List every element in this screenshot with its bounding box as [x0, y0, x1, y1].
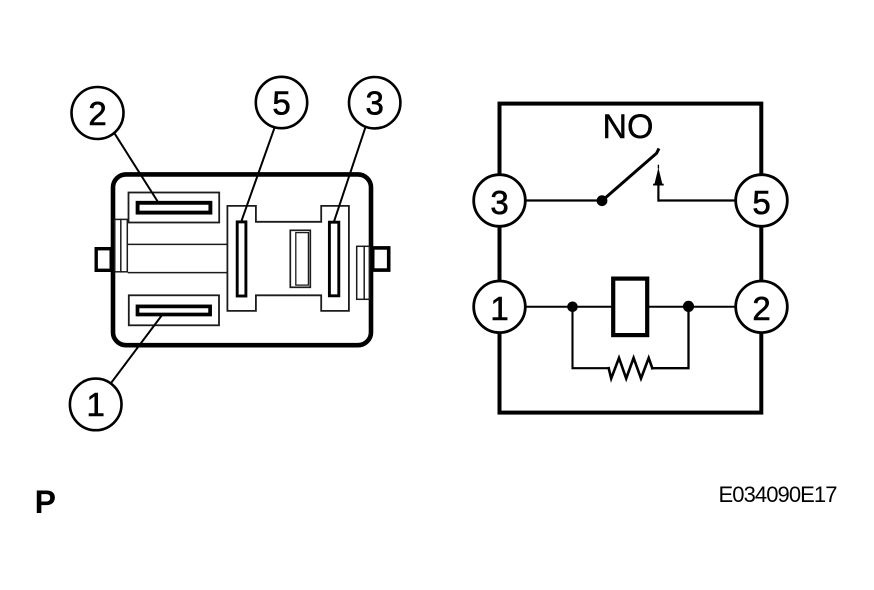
callout circle 3 — [349, 77, 400, 128]
terminal 2 slot — [138, 203, 211, 213]
wire coil to pin2 — [649, 306, 736, 308]
terminal 2 housing — [129, 193, 220, 223]
svg-text:2: 2 — [88, 95, 106, 132]
svg-text:1: 1 — [87, 386, 105, 423]
svg-text:NO: NO — [603, 108, 654, 146]
pin 2 — [736, 281, 788, 333]
svg-text:3: 3 — [490, 184, 508, 221]
svg-text:1: 1 — [490, 290, 508, 327]
callout circle 1 — [70, 379, 122, 431]
svg-text:5: 5 — [752, 184, 770, 221]
right side slide rail — [357, 246, 370, 299]
pin 3 — [474, 175, 526, 227]
wire pin1 to coil — [525, 306, 611, 308]
relay connector body outline — [113, 174, 371, 345]
switch contact node — [597, 195, 608, 206]
leader to terminal 2 — [113, 130, 159, 203]
leader to terminal 3 — [334, 126, 366, 221]
terminal 5 slot — [237, 222, 246, 296]
svg-text:3: 3 — [366, 85, 384, 122]
center spool contour — [227, 206, 349, 311]
wire switch to pin5 — [659, 199, 736, 201]
pin 5 — [736, 175, 788, 227]
left locking tab — [96, 249, 111, 271]
center horizontal web lines — [127, 244, 227, 272]
terminal 1 slot — [138, 306, 211, 314]
switch blade — [604, 150, 659, 200]
svg-text:5: 5 — [272, 84, 290, 121]
terminal 3 slot — [329, 222, 338, 296]
wire pin3 to switch contact — [525, 199, 599, 201]
svg-text:2: 2 — [752, 290, 770, 327]
resistor R zigzag — [609, 358, 653, 379]
schematic box — [500, 104, 762, 413]
leader to terminal 5 — [242, 128, 275, 221]
switch arrow — [654, 165, 663, 200]
pin 1 — [474, 281, 526, 333]
junction dot right — [683, 301, 694, 312]
center key slot — [290, 230, 310, 287]
relay coil — [613, 279, 647, 336]
svg-text:E034090E17: E034090E17 — [719, 482, 838, 507]
callout circle 2 — [72, 87, 124, 139]
callout circle 5 — [256, 77, 307, 128]
leader to terminal 1 — [111, 316, 161, 383]
junction dot left — [567, 302, 578, 313]
resistor branch left wire — [573, 307, 609, 368]
svg-text:P: P — [35, 484, 56, 520]
terminal 1 housing — [129, 295, 219, 325]
resistor branch right wire — [652, 307, 688, 368]
left side slide rail — [115, 219, 128, 271]
right locking tab — [373, 248, 389, 270]
